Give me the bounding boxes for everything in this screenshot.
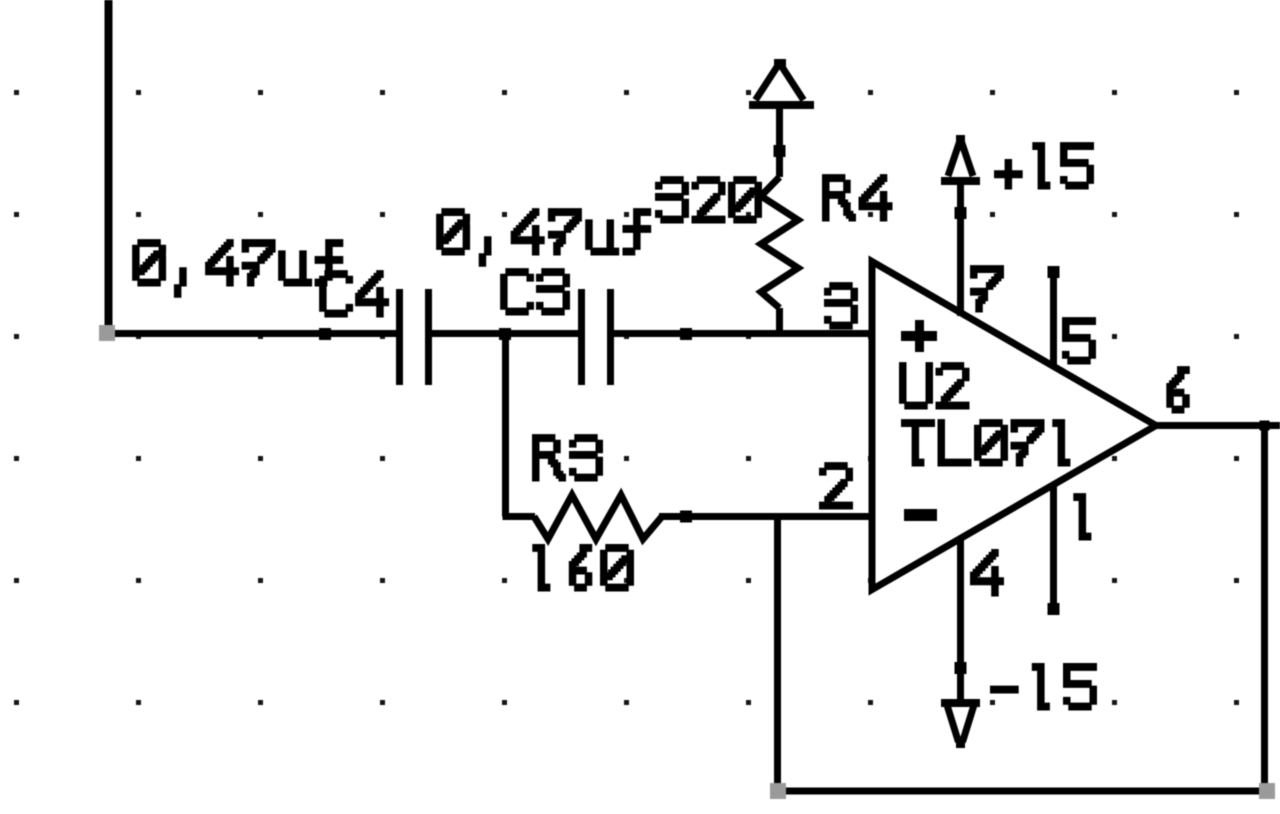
- label: R4 value 320: [655, 176, 762, 223]
- wire: op-amp output to right edge: [1150, 422, 1280, 429]
- wire: C3 to op-amp pin 3: [613, 330, 870, 337]
- op-amp U2 triangle body: [872, 262, 1156, 590]
- label: C3 reference: [500, 268, 570, 315]
- label: U2 reference: [899, 362, 970, 409]
- label: C4 value 0,47uf: [132, 239, 343, 298]
- wire: feedback bottom horizontal: [774, 788, 1268, 795]
- op-amp U2 inverting - marking: [904, 509, 937, 521]
- wire: C4 to C3: [431, 330, 579, 337]
- wire: output right vertical: [1261, 423, 1268, 791]
- pin number 7 (V+): [970, 265, 1004, 312]
- wire: branch from C4-C3 node down to R3: [503, 331, 536, 517]
- node: grey square junction at input corner: [99, 325, 115, 341]
- wire: feedback vertical from pin 2 node: [774, 513, 781, 791]
- junction dot on pin 2 wire: [680, 511, 692, 523]
- junction dot on R4 supply stem: [774, 145, 786, 157]
- wire: pin 5 stub: [1050, 271, 1057, 368]
- pin number 5 (offset null): [1062, 317, 1096, 364]
- wire: R3 to op-amp pin 2: [659, 513, 870, 520]
- pin number 2 (inverting input): [819, 462, 853, 509]
- resistor R3: [534, 495, 662, 539]
- label: R3 reference: [532, 434, 603, 481]
- power symbol: supply arrow above R4: [749, 59, 814, 109]
- junction dot on input wire: [319, 328, 331, 340]
- wire: input node to capacitor C4: [105, 330, 397, 337]
- pin number 6 (output): [1166, 366, 1190, 413]
- power symbol: -15 supply arrow: [941, 699, 980, 748]
- wire: pin 7 supply stem: [957, 184, 964, 316]
- label: R3 value 160: [532, 544, 634, 592]
- label: R4 reference: [822, 174, 893, 221]
- op-amp U2 non-inverting + marking: [901, 320, 937, 352]
- node: grey square junction bottom right: [1259, 783, 1275, 799]
- pin 1 end dot: [1048, 603, 1060, 615]
- wire: pin 1 stub: [1050, 483, 1057, 610]
- label: -15 net: [990, 663, 1097, 711]
- pin 5 end dot: [1048, 266, 1060, 278]
- wire: left input vertical segment: [105, 0, 113, 336]
- label: C3 value 0,47uf: [436, 208, 651, 267]
- node: grey square junction bottom left: [770, 783, 786, 799]
- label: U2 value TL071: [901, 419, 1070, 466]
- capacitor C4: [396, 289, 432, 385]
- junction dot on pin 3 wire: [680, 328, 692, 340]
- pin 7 end dot: [955, 207, 967, 219]
- junction dot at output corner: [1260, 421, 1270, 431]
- label: C4 reference: [319, 270, 389, 317]
- power symbol: +15 supply arrow: [941, 135, 980, 185]
- resistor R4: [761, 103, 798, 337]
- capacitor C3: [578, 289, 614, 385]
- wire: pin 4 supply stem: [957, 540, 964, 700]
- label: +15 net: [994, 142, 1094, 189]
- pin 4 end dot: [955, 662, 967, 674]
- pin number 3 (non-inverting input): [824, 282, 858, 329]
- junction dot at C4-C3 node: [499, 328, 511, 340]
- pin number 4 (V-): [970, 549, 1004, 597]
- pin number 1 (offset null): [1073, 493, 1091, 540]
